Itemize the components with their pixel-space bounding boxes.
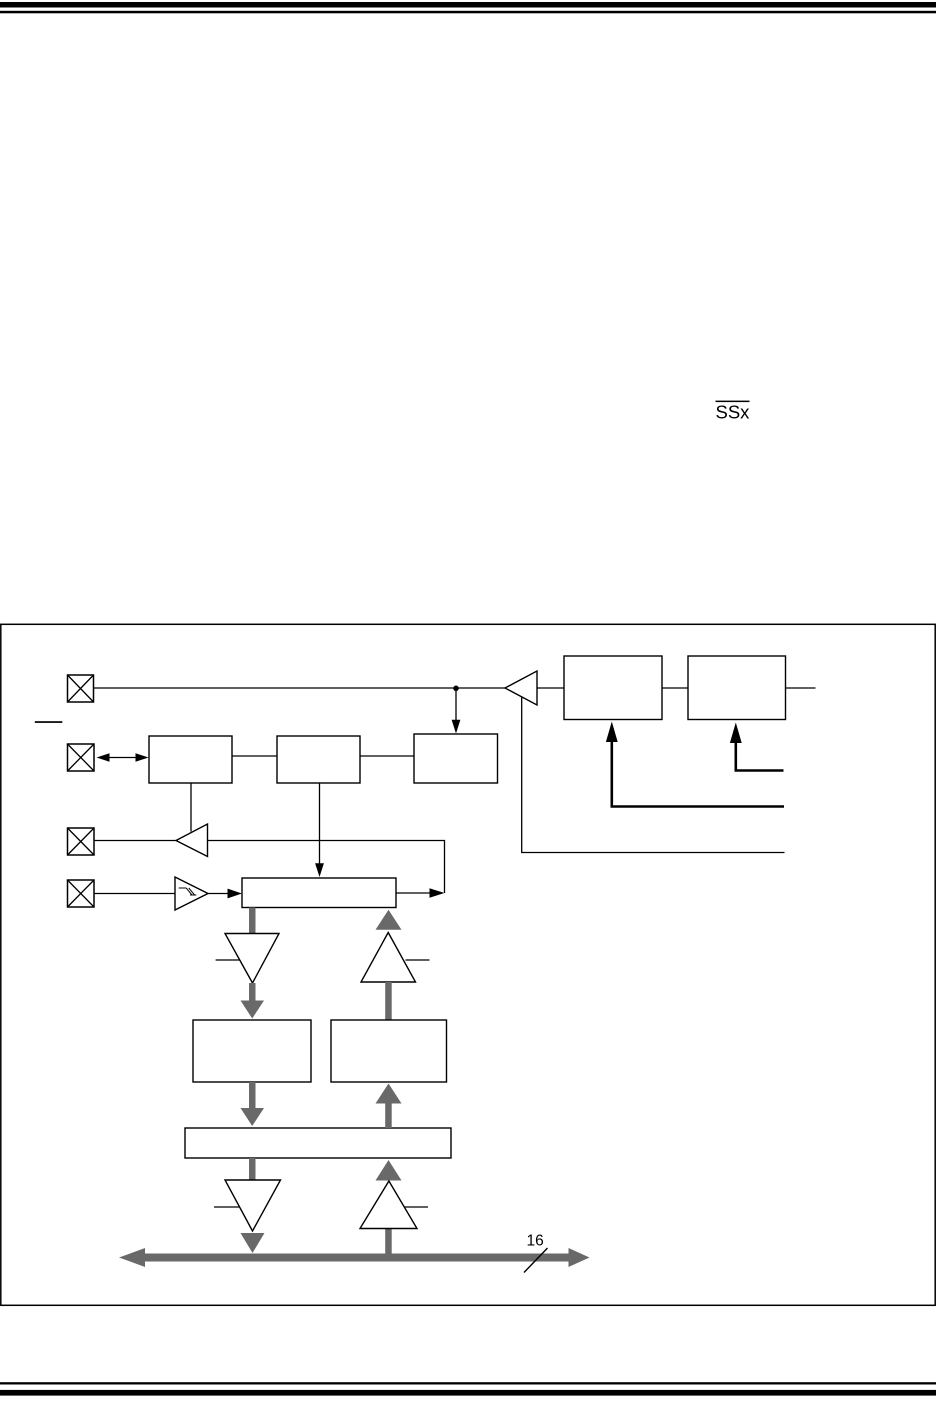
node junction J1 [453,686,459,692]
bus T3 to data bus [241,1233,265,1253]
wire P4 to schmitt U3 [94,893,175,895]
footer rule thick [0,1390,936,1396]
block B2 [277,736,360,783]
wire P1 to buffer U1 [94,687,506,689]
wire U1 base to block B4 [537,687,564,689]
wire B2 to B3 [360,755,414,757]
buffer U2 [176,824,208,857]
footer rule thin [0,1382,936,1384]
wire P2 to B1 bidirectional [97,753,149,761]
pin P2 [68,744,95,771]
tri-state buffer T4 [360,1181,417,1229]
wire U2 base to corner [208,841,445,894]
wire B2 down to shift register SR [315,783,324,877]
block B5 [688,656,786,720]
wire T3 enable [214,1206,239,1208]
header rule thin [0,11,936,14]
svg-text:SSx: SSx [716,402,751,423]
pin P1 [68,675,94,702]
node SSx label [716,401,751,423]
bus T1 to block B6 [241,983,265,1019]
wire T2 enable [406,959,430,961]
bus B8 to tri-state T3 [249,1158,256,1180]
node P1 name overline [35,721,63,723]
block B3 [414,734,498,783]
header rule thick [0,2,936,8]
bus B8 to B7 [376,1084,402,1129]
bus data bus up into SR [376,910,402,930]
bus B6 to block B8 [241,1082,265,1126]
wire SR out right [396,888,445,897]
wire U1 enable [522,697,785,853]
svg-text:16: 16 [527,1233,544,1250]
diagram frame [1,624,935,1305]
schmitt trigger U3 [175,877,208,910]
block B1 [149,736,232,783]
bus width slash [524,1248,548,1273]
wire B4 to B5 [662,687,688,689]
pin P4 [68,880,95,907]
wire B5 out right [786,687,816,689]
wire U3 to shift register SR [208,889,242,899]
bus T2 to block B7 [385,982,392,1020]
wire control into B5 [730,723,784,771]
bus SR to tri-state T1 [249,908,256,934]
wire control into B4 [606,722,784,807]
wire P3 to buffer U2 [94,840,176,842]
wire B1 enable to buffer U2 [190,783,192,832]
pin P3 [68,828,95,855]
data bus [119,1248,590,1267]
bus data bus to B8 [376,1160,402,1254]
wire J1 down to block B3 [452,688,461,734]
shift register SR [242,878,396,908]
block B8 [185,1128,451,1158]
block B4 [564,656,662,720]
tri-state buffer T1 [225,934,279,984]
wire T1 enable [216,959,240,961]
block B6 [193,1020,311,1082]
label 16 [527,1233,544,1250]
tri-state buffer T2 [361,933,416,983]
tri-state buffer T3 [225,1180,281,1231]
wire B1 to B2 [232,755,277,757]
block B7 [331,1020,447,1082]
wire T4 enable [405,1206,429,1208]
buffer U1 [505,671,537,705]
